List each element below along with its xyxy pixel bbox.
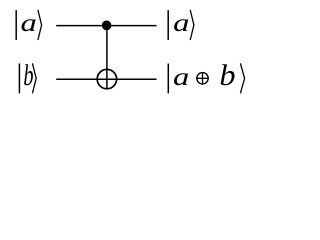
node label |b> (bottom left input ket) bbox=[19, 59, 36, 93]
control dot (CNOT control on qubit a) bbox=[102, 21, 112, 31]
svg-text:b: b bbox=[219, 59, 235, 92]
node label |a xor b> (bottom right output ket) bbox=[168, 59, 244, 93]
wire (bottom, qubit b) bbox=[56, 78, 156, 80]
node label |a> (top right output ket) bbox=[168, 10, 194, 40]
wire (vertical connector control to target) bbox=[106, 25, 108, 89]
wire (top, qubit a) bbox=[56, 25, 156, 27]
svg-text:a: a bbox=[173, 10, 189, 37]
oplus symbol in label bbox=[197, 73, 208, 84]
node label |a> (top left input ket) bbox=[16, 10, 41, 40]
target XOR circle (CNOT target on qubit b) bbox=[97, 69, 116, 88]
svg-text:a: a bbox=[173, 64, 189, 91]
svg-text:a: a bbox=[21, 10, 37, 37]
